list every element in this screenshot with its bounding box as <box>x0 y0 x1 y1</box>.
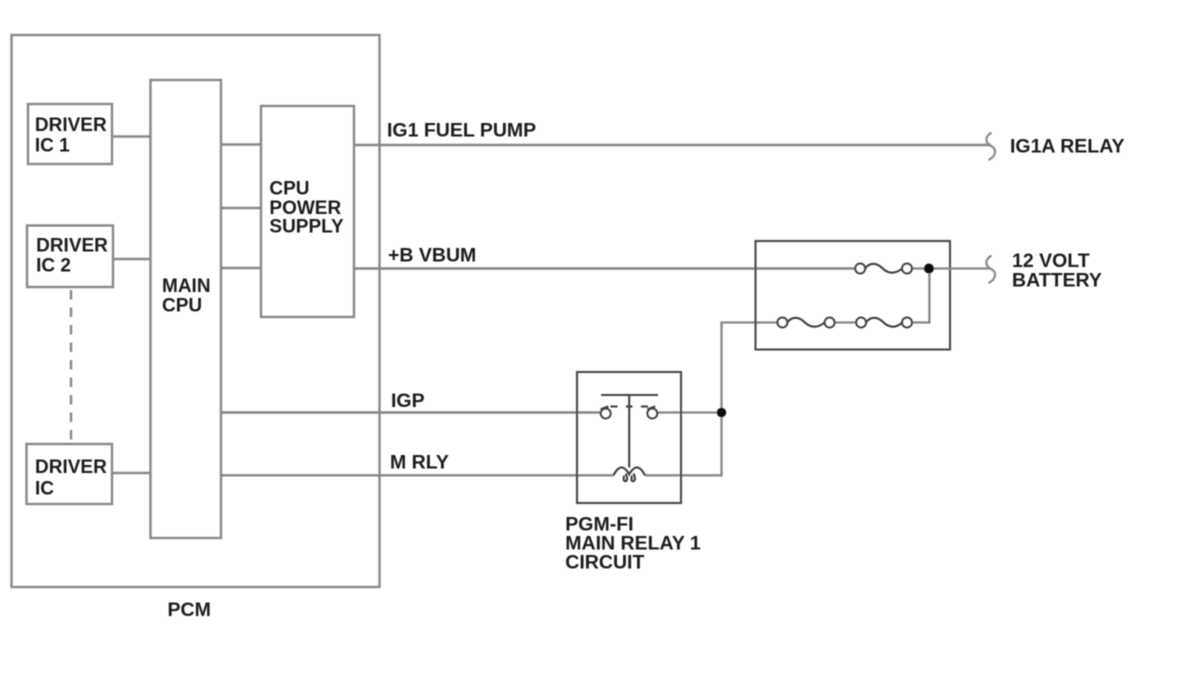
relay contact dashes <box>611 405 649 407</box>
svg-text:BATTERY: BATTERY <box>1012 269 1102 291</box>
wire relay coil to riser <box>645 474 723 476</box>
svg-text:CIRCUIT: CIRCUIT <box>565 551 644 573</box>
wire fuse F3 to top row riser <box>912 269 930 323</box>
wire riser to fuse box <box>722 323 778 476</box>
fuse F1 element <box>855 264 912 274</box>
relay plunger line <box>628 395 630 468</box>
wire main CPU to CPU power supply top <box>221 143 261 145</box>
svg-text:IC: IC <box>35 478 54 499</box>
wire driver IC1 to main CPU <box>112 135 151 137</box>
svg-text:CPU: CPU <box>269 179 309 200</box>
svg-text:CPU: CPU <box>162 296 202 317</box>
PGM-FI main relay 1 box <box>577 372 681 503</box>
driver IC box <box>27 444 113 504</box>
fuse F3 element <box>856 318 912 328</box>
dashed link driver IC2 to driver IC <box>70 290 72 443</box>
wire IG1 FUEL PUMP net <box>354 144 991 146</box>
PCM box <box>12 35 380 587</box>
wire between fuse F2 and fuse F3 <box>835 321 857 323</box>
wire main CPU to CPU power supply +B <box>221 267 261 269</box>
svg-text:PCM: PCM <box>168 599 211 621</box>
svg-text:IGP: IGP <box>391 390 425 412</box>
svg-text:DRIVER: DRIVER <box>36 235 108 256</box>
fuse box <box>756 241 951 350</box>
svg-text:IG1 FUEL PUMP: IG1 FUEL PUMP <box>387 119 536 141</box>
junction dot at battery node <box>924 264 934 274</box>
wire fuse F1 to junction dot <box>912 267 929 269</box>
wire main CPU to CPU power supply middle <box>221 207 261 209</box>
main CPU box <box>151 80 222 538</box>
connector break squiggle to IG1A relay <box>986 133 995 161</box>
wire junction dot to 12 volt battery <box>929 267 991 269</box>
relay coil <box>614 467 646 481</box>
driver IC 2 box <box>27 226 113 288</box>
relay contact left terminal <box>601 406 611 418</box>
svg-text:IC 1: IC 1 <box>35 135 70 156</box>
svg-text:+B VBUM: +B VBUM <box>388 245 476 267</box>
junction dot IGP node <box>717 408 726 417</box>
svg-text:M RLY: M RLY <box>390 451 449 473</box>
svg-text:IG1A RELAY: IG1A RELAY <box>1010 136 1125 158</box>
svg-text:IC 2: IC 2 <box>36 255 71 276</box>
wire M RLY net to relay coil <box>221 474 614 476</box>
wire relay contact to junction <box>657 411 721 413</box>
svg-text:SUPPLY: SUPPLY <box>269 217 344 238</box>
connector break squiggle to 12 volt battery <box>986 256 995 284</box>
wire driver IC to main CPU <box>112 472 151 474</box>
relay contact right terminal <box>647 406 657 418</box>
wire IGP net to relay contact <box>221 411 601 413</box>
fuse F2 element <box>778 318 835 328</box>
relay armature bar <box>601 394 658 396</box>
svg-text:MAIN: MAIN <box>162 276 211 297</box>
svg-text:DRIVER: DRIVER <box>35 115 107 136</box>
driver IC 1 box <box>28 104 112 164</box>
wire +B VBUM net to fuse box <box>354 267 855 269</box>
wire driver IC2 to main CPU <box>113 258 151 260</box>
CPU power supply box <box>261 106 354 317</box>
svg-text:DRIVER: DRIVER <box>35 457 107 478</box>
